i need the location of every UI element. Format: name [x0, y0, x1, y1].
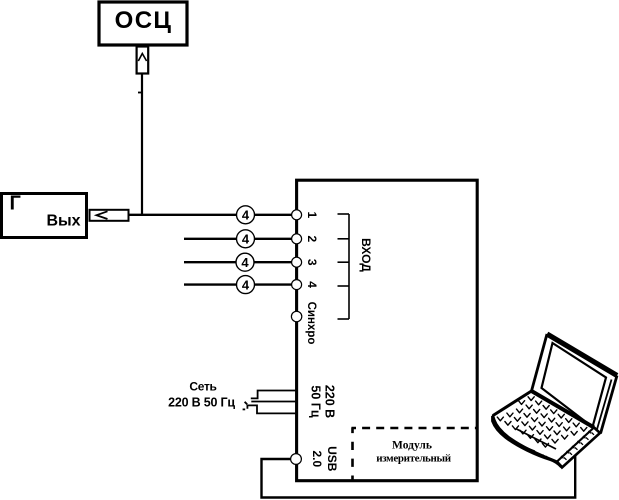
connector X2 generator output: [90, 210, 129, 221]
svg-text:50 Гц: 50 Гц: [309, 385, 323, 417]
pin Синхро: [291, 311, 301, 321]
wire channel 2: [184, 238, 292, 240]
svg-text:ВХОД: ВХОД: [359, 238, 373, 272]
pin 4: [292, 280, 302, 290]
svg-text:измерительный: измерительный: [376, 452, 451, 464]
label 220 В 50 Гц (power pins, rotated): [309, 385, 337, 418]
label Сеть 220 В 50 Гц: [168, 380, 235, 410]
wire from connector X1 down to node: [141, 74, 143, 216]
svg-text:4: 4: [305, 281, 319, 288]
laptop: [493, 334, 617, 468]
pin 3: [292, 257, 302, 267]
wire channel 3: [184, 261, 292, 263]
wire USB to laptop: [262, 452, 576, 498]
svg-text:4: 4: [242, 208, 250, 223]
attenuator 4 on channel 3: [236, 253, 254, 271]
pin 2: [292, 234, 302, 244]
measurement unit main box: [297, 180, 478, 481]
wire channel 4: [184, 283, 292, 285]
svg-text:2.0: 2.0: [310, 450, 324, 467]
label USB 2.0 (rotated): [310, 446, 339, 472]
wire channel 1 (generator to pin 1): [129, 214, 293, 216]
generator box Г: [2, 193, 87, 238]
svg-text:220 В: 220 В: [323, 385, 337, 418]
svg-text:Г: Г: [10, 193, 21, 215]
svg-text:ОСЦ: ОСЦ: [115, 7, 173, 34]
svg-text:Вых: Вых: [46, 213, 80, 230]
svg-text:Сеть: Сеть: [189, 380, 216, 394]
svg-text:1: 1: [305, 211, 319, 218]
svg-text:Синхро: Синхро: [305, 302, 317, 345]
svg-text:Модуль: Модуль: [392, 439, 432, 451]
connector X1 to oscilloscope: [137, 47, 149, 74]
attenuator 4 on channel 1: [237, 206, 255, 224]
svg-text:220 В 50 Гц: 220 В 50 Гц: [168, 395, 235, 409]
svg-text:USB: USB: [325, 446, 339, 472]
svg-text:4: 4: [242, 232, 250, 247]
dashed box Модуль измерительный: [352, 428, 478, 481]
pin USB: [291, 454, 302, 465]
attenuator 4 on channel 2: [237, 230, 255, 248]
pin 1: [292, 210, 302, 220]
svg-text:2: 2: [305, 235, 319, 242]
attenuator 4 on channel 4: [237, 276, 255, 294]
input bracket ВХОД: [338, 214, 350, 319]
svg-text:4: 4: [242, 277, 250, 292]
mains plug symbol: [243, 391, 296, 414]
oscilloscope box ОСЦ: [99, 2, 187, 45]
svg-text:4: 4: [241, 255, 249, 270]
svg-text:3: 3: [305, 259, 319, 266]
